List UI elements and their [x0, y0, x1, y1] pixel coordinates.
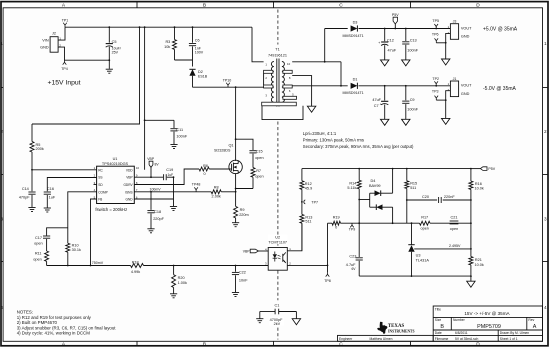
svg-text:J1: J1 [453, 77, 457, 81]
svg-text:TP4: TP4 [61, 67, 68, 71]
wire COMP branch [68, 192, 97, 244]
svg-text:R17: R17 [421, 216, 428, 220]
capacitor C16 / SS [44, 178, 97, 208]
svg-text:VBP: VBP [147, 157, 155, 161]
svg-text:8V: 8V [155, 163, 160, 167]
connector J1 [448, 77, 472, 97]
resistor R18 [131, 261, 144, 274]
svg-text:open: open [255, 156, 263, 160]
svg-text:Matthew Ulmen: Matthew Ulmen [370, 337, 393, 341]
svg-text:GND: GND [461, 92, 470, 96]
svg-text:C11: C11 [176, 128, 183, 132]
svg-text:5.11k: 5.11k [347, 186, 356, 190]
svg-text:MMSD914T1: MMSD914T1 [343, 91, 364, 95]
svg-text:COMP: COMP [98, 190, 108, 194]
capacitor C21 [450, 215, 459, 231]
resistor R19 [328, 215, 341, 229]
svg-text:C20: C20 [422, 195, 429, 199]
svg-text:Date: Date [435, 331, 442, 335]
svg-text:open: open [34, 242, 42, 246]
svg-text:D: D [476, 3, 480, 9]
svg-text:511: 511 [305, 220, 311, 224]
resistor R15 [405, 168, 417, 223]
ground below C14 [28, 208, 35, 212]
svg-text:C: C [339, 3, 343, 9]
wire +5V rail [325, 28, 451, 30]
svg-text:0: 0 [335, 226, 337, 230]
connector J2 [40, 32, 61, 53]
ground below J1 [442, 118, 450, 124]
svg-text:0: 0 [204, 172, 206, 176]
resistor R14 [347, 169, 361, 257]
svg-text:TP6: TP6 [432, 32, 439, 36]
svg-text:PMP5709: PMP5709 [477, 324, 501, 330]
-5.0V output label [483, 86, 517, 92]
svg-text:SD: SD [98, 183, 103, 187]
title block [433, 306, 542, 341]
svg-text:D3: D3 [353, 20, 358, 24]
wire R3/C6 junction [175, 59, 193, 61]
wire xfmr pin10 to rectifiers [292, 61, 341, 63]
capacitor C19 / VBP [134, 168, 174, 180]
svg-text:15V -> +/-5V @ 35mA: 15V -> +/-5V @ 35mA [464, 311, 510, 316]
svg-text:D4: D4 [371, 179, 376, 183]
svg-text:R5: R5 [36, 143, 41, 147]
svg-text:C7: C7 [374, 104, 379, 108]
svg-text:TP5: TP5 [432, 19, 439, 23]
svg-text:R21: R21 [475, 258, 482, 262]
wire J2 pin2 to bottom [58, 47, 109, 60]
svg-text:10: 10 [287, 62, 291, 66]
capacitor C7 [372, 85, 388, 119]
svg-text:C18: C18 [154, 210, 161, 214]
svg-text:10.0k: 10.0k [475, 187, 484, 191]
svg-text:C16: C16 [47, 187, 54, 191]
svg-text:100nF: 100nF [407, 48, 418, 52]
svg-text:C19: C19 [166, 168, 173, 172]
svg-text:C5: C5 [112, 40, 117, 44]
wire xfmr pin6 to D1 row [292, 85, 312, 87]
svg-text:C23: C23 [349, 255, 356, 259]
engineer block [338, 335, 434, 341]
wire J2 pin1 to rail [58, 27, 65, 40]
svg-text:Lpri=230uH, 4:1:1: Lpri=230uH, 4:1:1 [303, 131, 337, 136]
svg-text:C6: C6 [195, 39, 200, 43]
svg-text:ISNS: ISNS [125, 190, 132, 194]
svg-text:R8: R8 [214, 186, 219, 190]
capacitor C5 [106, 26, 121, 69]
svg-text:TL431A: TL431A [416, 258, 430, 262]
diode D3 [343, 20, 364, 38]
svg-text:-5.0V @ 35mA: -5.0V @ 35mA [483, 86, 517, 92]
transformer notes text [303, 131, 414, 149]
svg-text:VIN: VIN [42, 39, 49, 43]
svg-text:VOUT: VOUT [461, 84, 472, 88]
svg-text:TP1: TP1 [62, 19, 69, 23]
svg-text:C22: C22 [239, 271, 246, 275]
wire secondary bottom line [359, 275, 471, 277]
svg-text:BAV99: BAV99 [369, 184, 381, 188]
wire 750mV feedback line [47, 261, 269, 267]
wire rail to R5 line [32, 26, 140, 124]
svg-text:749196121: 749196121 [268, 54, 287, 58]
resistor R7 [235, 168, 264, 190]
svg-text:TEXAS: TEXAS [388, 324, 405, 329]
svg-text:+15V Input: +15V Input [48, 80, 81, 87]
capacitor C6 [189, 26, 204, 60]
svg-text:GND: GND [461, 35, 470, 39]
svg-text:220pF: 220pF [153, 217, 164, 221]
wire J3 pin2 to ground [436, 33, 450, 58]
TP4 [61, 60, 68, 71]
svg-text:C21: C21 [451, 215, 458, 219]
svg-text:U3: U3 [416, 254, 421, 258]
svg-text:4) Duty cycle: 41%, working i: 4) Duty cycle: 41%, working in DCCM [17, 331, 91, 336]
svg-text:47uF: 47uF [388, 48, 397, 52]
svg-text:TP3: TP3 [432, 90, 439, 94]
svg-text:4.99k: 4.99k [131, 270, 140, 274]
capacitor C11 [145, 120, 188, 144]
svg-text:Title: Title [435, 308, 441, 312]
svg-text:25V: 25V [112, 50, 119, 54]
ground below C5 [106, 69, 113, 73]
svg-text:VOUT: VOUT [461, 26, 472, 30]
wire source vertical [235, 174, 237, 207]
svg-text:100V: 100V [195, 50, 204, 54]
svg-text:C: C [339, 342, 343, 348]
svg-text:Filename: Filename [435, 337, 449, 341]
svg-text:MMSD914T1: MMSD914T1 [343, 34, 364, 38]
svg-text:750mV: 750mV [92, 261, 104, 265]
svg-text:RC: RC [98, 168, 103, 172]
svg-text:45.9: 45.9 [305, 186, 312, 190]
wire rail to VDD [144, 26, 146, 170]
wire D3 anode riser [324, 29, 326, 62]
svg-text:+5.0V @ 35mA: +5.0V @ 35mA [483, 27, 518, 33]
svg-text:INSTRUMENTS: INSTRUMENTS [388, 330, 414, 334]
TP5 [432, 19, 439, 30]
wire opto pin2 line [287, 265, 328, 267]
ground below R9 [232, 223, 239, 227]
svg-text:SI2328DS: SI2328DS [214, 148, 231, 152]
transistor Q1 SI2328DS [214, 143, 242, 173]
wire rail to xfmr pin1 [252, 27, 264, 62]
wire GDRV to gate [134, 169, 229, 185]
TP8 [324, 265, 331, 282]
ground below C12 [381, 60, 389, 66]
svg-text:open: open [450, 227, 458, 231]
svg-text:Drawn By M. Ulmen: Drawn By M. Ulmen [500, 331, 529, 335]
wire ISNS line [134, 187, 236, 192]
notes text block [17, 310, 117, 336]
resistor R3 [164, 26, 176, 60]
ground below J3 [442, 59, 450, 65]
wire -5V rail [312, 85, 450, 87]
svg-text:1uF: 1uF [49, 195, 56, 199]
svg-text:R16: R16 [475, 182, 482, 186]
capacitor C18 [147, 192, 164, 229]
svg-text:100nF: 100nF [407, 108, 418, 112]
ground below R21 [467, 281, 475, 287]
svg-text:A: A [533, 324, 537, 330]
capacitor C23 [346, 255, 363, 276]
wire drain to xfmr pin3 [235, 86, 264, 88]
svg-text:1.00k: 1.00k [178, 281, 187, 285]
svg-text:P5V: P5V [488, 167, 495, 171]
svg-text:open: open [33, 258, 41, 262]
capacitor C15 [235, 138, 264, 167]
TP2 [432, 77, 439, 87]
capacitor C1 [260, 303, 297, 326]
svg-text:R14: R14 [349, 182, 356, 186]
svg-text:C9: C9 [410, 98, 415, 102]
shunt ref U3 TL431A [408, 223, 429, 276]
wire J1 pin2 to ground [436, 91, 450, 119]
svg-text:C14: C14 [22, 187, 29, 191]
fswitch label [95, 207, 127, 212]
svg-text:Engineer: Engineer [339, 337, 353, 341]
svg-text:TP8: TP8 [324, 279, 331, 283]
resistor R9 [234, 206, 249, 222]
svg-text:Size: Size [435, 318, 442, 322]
TP6 [432, 32, 439, 43]
opto U2 TCMT1107 [265, 235, 291, 270]
svg-text:R11: R11 [35, 252, 42, 256]
svg-text:TP9: TP9 [349, 228, 356, 232]
resistor R16 [469, 169, 484, 249]
svg-text:5V at 35mA.sch: 5V at 35mA.sch [455, 337, 478, 341]
capacitor C17 [34, 228, 68, 251]
svg-text:open: open [420, 227, 428, 231]
svg-text:Sheet 1 of 1: Sheet 1 of 1 [500, 337, 518, 341]
TP9 [349, 223, 356, 231]
svg-text:NOTES:: NOTES: [17, 310, 33, 315]
wire +15V top rail [65, 26, 252, 28]
svg-text:VDD: VDD [126, 168, 133, 172]
TP7 [301, 200, 318, 205]
svg-text:VBP: VBP [126, 176, 132, 180]
svg-text:Q1: Q1 [228, 143, 233, 147]
ground at U1 [170, 207, 177, 211]
svg-text:B: B [203, 3, 206, 9]
svg-text:U2: U2 [275, 236, 280, 240]
svg-text:ES1B: ES1B [198, 75, 208, 79]
connector J3 [448, 20, 472, 40]
svg-text:R20: R20 [178, 276, 185, 280]
svg-text:511: 511 [410, 186, 416, 190]
ground below C22 [232, 293, 239, 297]
VBP flag at U2 [243, 249, 268, 253]
wire D1 feed riser [340, 62, 342, 87]
svg-text:220m: 220m [239, 213, 249, 217]
svg-text:10: 10 [136, 166, 140, 170]
svg-text:U1: U1 [113, 157, 118, 161]
svg-text:R3: R3 [165, 40, 170, 44]
svg-text:Number: Number [453, 318, 466, 322]
resistor R5 [30, 124, 44, 170]
svg-text:TP48: TP48 [192, 183, 201, 187]
svg-text:GND: GND [126, 198, 134, 202]
wire R19 riser [327, 223, 329, 265]
resistor R17 [420, 216, 431, 231]
svg-text:6/8/2011: 6/8/2011 [455, 331, 468, 335]
svg-text:100nF: 100nF [176, 134, 187, 138]
svg-text:Primary: 130mA peak, 50mA rm: Primary: 130mA peak, 50mA rms [303, 137, 364, 142]
svg-text:10nF: 10nF [239, 278, 248, 282]
svg-text:TP2: TP2 [432, 77, 439, 81]
ground below C18 [147, 229, 154, 233]
svg-text:R18: R18 [132, 261, 139, 265]
svg-text:B: B [203, 342, 206, 348]
svg-text:R10: R10 [72, 244, 79, 248]
svg-text:C12: C12 [387, 39, 394, 43]
svg-text:30.1k: 30.1k [72, 248, 81, 252]
wire RC line [31, 169, 97, 171]
svg-text:R6: R6 [203, 164, 208, 168]
capacitor C20 [407, 195, 472, 203]
transformer T1 749196121 [262, 48, 297, 107]
op-amp U1 TPS40210DGS [94, 157, 140, 204]
wire xfmr pins 2-3 strap [263, 73, 265, 85]
+15V Input label [48, 80, 81, 87]
diode D4 BAV99 [359, 169, 392, 224]
capacitor C13 [402, 28, 419, 60]
svg-text:10.0k: 10.0k [475, 263, 484, 267]
svg-text:T1: T1 [275, 48, 279, 52]
TP10 [223, 79, 232, 88]
resistor R21 [469, 248, 484, 281]
resistor R10 [66, 243, 81, 265]
resistor R13 [300, 214, 312, 250]
wire FB branch [91, 199, 97, 266]
wire D2 to drain node [193, 86, 236, 88]
svg-text:Rev: Rev [528, 318, 534, 322]
ground secondary common [307, 106, 315, 112]
capacitor C22 [232, 266, 248, 293]
resistor R8 [211, 186, 221, 199]
ground below C16 [44, 208, 51, 212]
svg-text:GDRV: GDRV [123, 183, 133, 187]
ground below C9 [402, 119, 410, 125]
wire xfmr pin8 to ground [292, 76, 311, 106]
ground below C7 [381, 119, 389, 125]
svg-text:fswitch = 200kHz: fswitch = 200kHz [95, 207, 127, 212]
wire GND pin [134, 177, 173, 206]
resistor R20 [172, 266, 187, 294]
svg-text:TPS40210DGS: TPS40210DGS [102, 162, 129, 166]
P5V flag top [392, 13, 399, 30]
svg-text:SS: SS [98, 176, 102, 180]
svg-text:200k: 200k [36, 147, 44, 151]
+5.0V output label [483, 27, 518, 33]
svg-text:TP10: TP10 [223, 79, 232, 83]
svg-text:R7: R7 [256, 169, 261, 173]
TP48 [192, 183, 201, 192]
svg-text:2.00k: 2.00k [212, 195, 221, 199]
svg-text:TP7: TP7 [311, 201, 318, 205]
wire TL431 cathode line [341, 222, 472, 224]
svg-text:open: open [255, 175, 263, 179]
TP3 [432, 90, 439, 101]
svg-text:Secondary: 370mA peak, 90mA: Secondary: 370mA peak, 90mA rms, 35mA av… [303, 144, 414, 149]
svg-text:R9: R9 [240, 208, 245, 212]
wire P5V sense line [302, 168, 472, 170]
svg-text:R19: R19 [333, 215, 340, 219]
svg-text:GND: GND [40, 45, 49, 49]
TP1 [62, 19, 69, 28]
ground below C13 [402, 60, 410, 66]
svg-text:1uF: 1uF [168, 173, 174, 177]
capacitor C9 [402, 85, 419, 119]
svg-text:R12: R12 [305, 182, 312, 186]
svg-text:C17: C17 [35, 236, 42, 240]
svg-text:D2: D2 [198, 70, 203, 74]
wire xfmr bottom loop [262, 106, 303, 120]
wire drain vertical [235, 87, 237, 160]
resistor R11 [33, 251, 48, 266]
svg-text:P5V: P5V [392, 13, 399, 17]
ground primary at C1 [256, 312, 263, 323]
svg-text:2kV: 2kV [274, 322, 281, 326]
svg-text:D: D [476, 342, 480, 348]
svg-text:J2: J2 [52, 32, 56, 36]
isolation boundary dashed line [277, 10, 279, 340]
capacitor C14 [19, 170, 36, 208]
Texas Instruments logo [377, 322, 414, 334]
svg-text:100mV: 100mV [150, 187, 162, 191]
svg-text:C15: C15 [256, 150, 263, 154]
VBP flag at U1 [147, 157, 159, 177]
resistor R6 [199, 164, 209, 176]
wire opto pin1 to R13 [287, 223, 302, 250]
svg-text:J3: J3 [453, 20, 457, 24]
ground secondary at C1 [292, 312, 300, 325]
svg-text:TCMT1107: TCMT1107 [268, 240, 287, 244]
wire TL431 ref line [414, 244, 471, 249]
svg-text:2.495V: 2.495V [449, 244, 461, 248]
ground below R20 [170, 294, 177, 298]
diode D2 [189, 60, 207, 87]
svg-text:B: B [440, 324, 444, 330]
svg-text:FB: FB [98, 198, 102, 202]
capacitor C12 [378, 28, 397, 60]
svg-text:VBP: VBP [243, 249, 251, 253]
svg-text:D1: D1 [353, 78, 358, 82]
svg-text:47uF: 47uF [372, 98, 381, 102]
svg-text:470pF: 470pF [19, 195, 30, 199]
svg-text:C13: C13 [410, 39, 417, 43]
svg-text:R15: R15 [410, 182, 417, 186]
diode D1 [343, 78, 364, 96]
resistor R12 [300, 169, 312, 215]
svg-text:220nF: 220nF [444, 195, 455, 199]
ground below C11 [170, 145, 177, 149]
svg-text:10k: 10k [164, 45, 170, 49]
P5V flag right [471, 167, 496, 171]
svg-text:C1: C1 [274, 303, 279, 307]
